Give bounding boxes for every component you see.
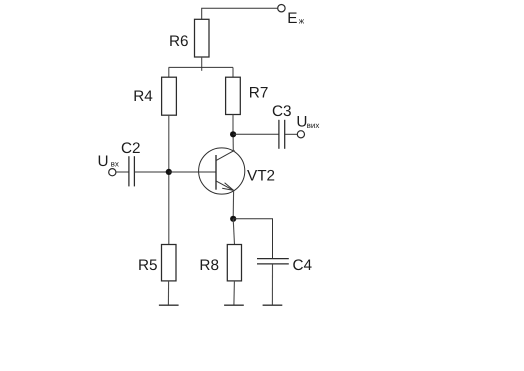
wire: emitter down to node	[232, 190, 234, 218]
svg-text:R5: R5	[138, 257, 158, 274]
wire: branch horizontal	[169, 66, 233, 68]
output terminal Uвих	[296, 114, 319, 138]
wire: input terminal to C2	[116, 171, 129, 173]
wire: C2 to input node	[134, 171, 168, 173]
svg-text:вх: вх	[111, 160, 119, 169]
svg-text:E: E	[287, 10, 297, 27]
wire: collector up to node	[232, 134, 234, 151]
ground	[159, 304, 179, 306]
wire: emitter node to C4 branch	[233, 219, 272, 258]
wire: branch down to R4	[168, 67, 170, 77]
capacitor C3	[272, 103, 292, 149]
resistor R8	[199, 245, 241, 281]
wire: C3 to output terminal	[285, 133, 298, 135]
wire: R6 top to supply terminal	[202, 8, 278, 19]
node: emitter node	[230, 216, 236, 222]
wire: R4 bottom to input node	[168, 115, 170, 172]
wire: branch down to R7	[232, 67, 234, 77]
wire: R7 bottom to collector node	[232, 115, 234, 135]
wire: R8 to ground	[233, 281, 236, 305]
svg-text:R7: R7	[249, 85, 269, 102]
resistor R7	[226, 77, 269, 114]
input terminal Uвх	[98, 153, 119, 176]
svg-text:R6: R6	[169, 33, 189, 50]
capacitor C2	[121, 140, 141, 186]
wire: C4 to ground	[271, 264, 273, 305]
svg-text:R8: R8	[199, 257, 219, 274]
transistor VT2	[199, 148, 275, 194]
resistor R5	[138, 245, 176, 281]
resistor R4	[133, 77, 176, 115]
node: base node junction	[166, 169, 172, 175]
wire: collector node to C3	[233, 133, 279, 135]
ground	[224, 304, 244, 306]
svg-text:ж: ж	[299, 17, 305, 26]
power terminal Eж	[278, 5, 305, 28]
wire: emitter node to R8	[233, 219, 234, 245]
svg-text:VT2: VT2	[247, 168, 275, 185]
ground	[263, 304, 283, 306]
wire: R6 bottom stem through branch	[201, 57, 203, 71]
wire: R5 to ground	[167, 281, 169, 305]
capacitor C4	[257, 257, 313, 274]
svg-text:C3: C3	[272, 103, 292, 120]
resistor R6	[169, 19, 209, 57]
wire: input node down to R5	[168, 172, 170, 245]
node: collector node	[230, 131, 236, 137]
svg-text:вих: вих	[307, 121, 320, 130]
svg-text:C2: C2	[121, 140, 141, 157]
svg-text:U: U	[98, 153, 109, 170]
svg-text:R4: R4	[133, 88, 153, 105]
wire: input node to transistor base	[169, 171, 216, 173]
svg-text:C4: C4	[293, 257, 313, 274]
